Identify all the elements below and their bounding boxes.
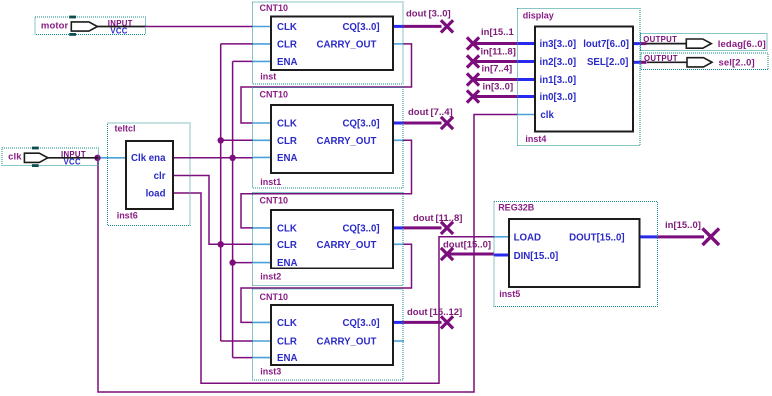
port ENA inst3 [277,353,297,364]
bus label in[7..4] [482,64,513,75]
port DOUT[15..0] [569,233,624,244]
bus stub DIN REG32B [494,254,509,257]
block CNT10 inst3 body [271,305,393,365]
pin stub CARRY_OUT inst2 [393,243,403,245]
svg-text:DOUT[15..0]: DOUT[15..0] [569,233,624,244]
port CARRY_OUT inst [316,40,376,51]
wire clr branch to inst3 [221,340,253,342]
bus sel net to OUTPUT pin [640,61,646,64]
bus stub display in[11..8] [517,60,535,63]
bus dout[7..4] [403,122,442,125]
symbol name display [523,11,554,21]
bus label in[15..0] [665,220,701,231]
svg-text:CLK: CLK [277,318,297,329]
svg-text:CQ[3..0]: CQ[3..0] [342,22,379,33]
pin stub CLK inst1 [252,122,271,124]
dangling X in[15..12] [467,37,479,49]
junction clr net at inst1 branch [218,137,224,143]
svg-text:in3[3..0]: in3[3..0] [540,39,577,50]
svg-text:CARRY_OUT: CARRY_OUT [316,240,376,251]
svg-text:in[7..4]: in[7..4] [482,64,513,75]
port CLR inst2 [277,240,297,251]
wire ena net: teltcl Clk ena to ENA inst1 [173,157,252,159]
svg-text:dout [15..12]: dout [15..12] [407,307,462,318]
symbol name CNT10 (inst3) [260,292,289,302]
pin stub ENA inst2 [252,262,271,264]
port CARRY_OUT inst2 [316,240,376,251]
svg-text:ENA: ENA [277,353,297,364]
svg-text:in[15..1: in[15..1 [481,27,514,38]
svg-text:ENA: ENA [277,153,297,164]
pin stub ENA inst [252,60,271,62]
block display body [535,27,633,132]
svg-text:inst3: inst3 [260,367,281,377]
svg-text:inst2: inst2 [260,271,281,281]
svg-text:inst6: inst6 [117,211,138,221]
junction ena net at inst2 branch [229,259,235,265]
port lout7[6..0] [583,39,629,50]
pin stub ENA inst3 [252,357,271,359]
port CQ[3..0] inst2 [342,224,379,235]
port CLR inst3 [277,337,297,348]
pin stub CLK inst [252,26,271,28]
port ENA inst1 [277,153,297,164]
port ENA inst2 [277,258,297,269]
pin stub CARRY_OUT inst3 (unconnected) [393,340,404,342]
wire clk pin to teltcl Clk ena (net clk) [96,157,126,159]
block CNT10 inst body [271,17,393,71]
svg-text:sel[2..0]: sel[2..0] [719,58,755,69]
block REG32B body [509,219,640,287]
symbol name REG32B [498,203,535,213]
junction clk net at input pin [94,155,100,161]
instance name inst1 [260,177,281,187]
block CNT10 inst3 selection box [252,289,403,380]
bus label dout[15..0] [443,240,491,251]
dangling X in[15..0] [703,228,720,245]
instance name inst6 [117,211,138,221]
bus stub display in[3..0] [517,95,535,98]
bus in[11..8] to display [473,60,517,63]
junction clr net at source [218,241,224,247]
symbol name teltcl [115,124,136,134]
output pin sel[2..0] [641,53,768,70]
port in1[3..0] [540,75,577,86]
pin stub ENA inst1 [252,156,271,158]
bus stub display in[15..12] [517,42,535,45]
svg-text:CLK: CLK [277,119,297,130]
svg-text:inst5: inst5 [499,289,520,299]
symbol name CNT10 (inst1) [260,90,289,100]
bus stub DOUT REG32B [640,235,658,238]
svg-text:CLR: CLR [277,240,297,251]
bus label in[11..8] [481,46,516,57]
dangling X in[3..0] [467,90,479,102]
instance name inst3 [260,367,281,377]
bus stub CQ inst2 [393,226,403,229]
bus label in[3..0] [483,82,514,93]
pin stub display clk [517,114,535,116]
port CLR inst [277,40,297,51]
svg-text:dout [11..8]: dout [11..8] [413,213,462,224]
wire ena net vertical distribution [232,61,234,357]
dangling X dout[15..0] [441,248,453,260]
svg-text:CLR: CLR [277,136,297,147]
svg-text:inst: inst [260,72,276,82]
pin stub LOAD REG32B [494,236,509,238]
svg-text:in0[3..0]: in0[3..0] [540,92,577,103]
bus label dout[3..0] [406,9,451,20]
block CNT10 inst2 selection box [252,193,403,286]
dangling X dout[7..4] [441,117,453,129]
pin stub CARRY_OUT inst [393,43,403,45]
wire ena branch to inst [233,60,253,62]
svg-text:REG32B: REG32B [498,203,535,213]
bus in[15..12] to display [473,42,517,45]
wire load net: teltcl load to REG32B LOAD [173,193,494,383]
svg-text:CQ[3..0]: CQ[3..0] [342,224,379,235]
port CLK inst [277,22,297,33]
bus dout[15..12] [403,321,442,324]
svg-text:in[11..8]: in[11..8] [481,46,516,57]
wire clr net: teltcl clr down to CLR inst2 [173,176,252,245]
wire carry chain inst1 to CLK inst2 [241,140,412,228]
port in2[3..0] [540,57,577,68]
dangling X dout[11..8] [441,222,453,234]
wire ena branch to inst3 [233,357,253,359]
svg-text:CNT10: CNT10 [260,90,289,100]
wire clr net vertical distribution [220,44,222,341]
dangling X dout[3..0] [441,20,453,32]
port CQ[3..0] inst3 [342,318,379,329]
port DIN[15..0] [514,251,559,262]
instance name inst5 [499,289,520,299]
svg-text:CQ[3..0]: CQ[3..0] [342,119,379,130]
port in3[3..0] [540,39,577,50]
pin stub CARRY_OUT inst1 [393,139,403,141]
svg-text:VCC: VCC [110,26,127,35]
wire ena branch to inst2 [233,262,253,264]
svg-text:in1[3..0]: in1[3..0] [540,75,577,86]
bus stub lout7 display to OUTPUT pin [633,42,640,45]
symbol name CNT10 (inst2) [260,196,289,206]
svg-text:CARRY_OUT: CARRY_OUT [316,337,376,348]
bus label dout[7..4] [408,107,453,118]
svg-text:VCC: VCC [64,158,81,167]
block CNT10 inst1 selection box [252,88,403,189]
block CNT10 inst selection box [252,2,403,84]
svg-text:CNT10: CNT10 [260,292,289,302]
bus label dout[11..8] [413,213,462,224]
bus dout[11..8] [403,226,442,229]
bus stub CQ inst3 [393,321,403,324]
bus label in[15..12] [481,27,514,38]
block teltcl selection box [108,123,190,226]
pin stub CLK inst2 [252,227,271,229]
svg-text:in[15..0]: in[15..0] [665,220,701,231]
bus dout[15..0] into REG32B DIN [447,253,494,256]
svg-text:dout[15..0]: dout[15..0] [443,240,491,251]
port CLK inst1 [277,119,297,130]
svg-text:CNT10: CNT10 [260,3,289,13]
wire motor net to CLK of inst [145,26,252,28]
bus in[3..0] to display [473,95,517,98]
wire carry chain inst to CLK inst1 [241,44,412,123]
bus stub CQ inst1 [393,122,403,125]
svg-text:inst1: inst1 [260,177,281,187]
svg-text:Clk ena: Clk ena [131,153,166,164]
svg-text:inst4: inst4 [525,134,546,144]
input pin clk [2,147,99,167]
output pin ledag[6..0] [640,33,767,50]
bus in[7..4] to display [473,78,517,81]
pin stub CLR inst2 [252,243,271,245]
port LOAD [514,233,541,244]
svg-text:CLR: CLR [277,40,297,51]
block CNT10 inst2 body [271,210,393,268]
svg-text:OUTPUT: OUTPUT [644,54,678,63]
svg-text:clr: clr [154,171,166,182]
block REG32B selection box [494,202,658,307]
svg-text:dout [3..0]: dout [3..0] [406,9,451,20]
svg-text:CLK: CLK [277,224,297,235]
svg-text:OUTPUT: OUTPUT [643,35,677,44]
svg-text:CARRY_OUT: CARRY_OUT [316,40,376,51]
port ENA inst [277,57,297,68]
port Clk ena [131,153,166,164]
bus label dout[15..12] [407,307,462,318]
symbol name CNT10 (inst) [260,3,289,13]
port clr [154,171,166,182]
port CLR inst1 [277,136,297,147]
port CQ[3..0] inst1 [342,119,379,130]
dangling X in[11..8] [467,55,479,67]
svg-text:dout [7..4]: dout [7..4] [408,107,453,118]
svg-text:clk: clk [540,110,554,121]
port CARRY_OUT inst3 [316,337,376,348]
bus dout[3..0] [403,25,442,28]
bus in[15..0] [657,235,704,238]
port CLK inst3 [277,318,297,329]
svg-text:CNT10: CNT10 [260,196,289,206]
svg-text:SEL[2..0]: SEL[2..0] [587,57,628,68]
svg-text:load: load [146,189,166,200]
wire clr branch to inst [221,43,253,45]
svg-text:teltcl: teltcl [115,124,136,134]
dangling X in[7..4] [467,73,479,85]
svg-text:CARRY_OUT: CARRY_OUT [316,136,376,147]
svg-text:lout7[6..0]: lout7[6..0] [583,39,629,50]
block display selection box [517,9,640,146]
junction ena net at source [229,155,235,161]
svg-text:CLK: CLK [277,22,297,33]
pin stub CLK inst3 [252,321,271,323]
svg-text:in2[3..0]: in2[3..0] [540,57,577,68]
wire clk net: down, along bottom, up to display clk [98,115,517,393]
port load [146,189,166,200]
svg-text:ENA: ENA [277,258,297,269]
svg-text:CLR: CLR [277,337,297,348]
instance name inst [260,72,276,82]
svg-text:CQ[3..0]: CQ[3..0] [342,318,379,329]
bus stub display in[7..4] [517,78,535,81]
svg-text:ledag[6..0]: ledag[6..0] [718,39,766,50]
pin stub CLR inst1 [252,139,271,141]
svg-text:clk: clk [8,152,22,163]
port CQ[3..0] inst [342,22,379,33]
pin stub CLR inst3 [252,340,271,342]
svg-text:LOAD: LOAD [514,233,541,244]
port CARRY_OUT inst1 [316,136,376,147]
pin stub CLR inst [252,43,271,45]
port SEL[2..0] [587,57,628,68]
instance name inst2 [260,271,281,281]
port in0[3..0] [540,92,577,103]
instance name inst4 [525,134,546,144]
dangling X dout[15..12] [441,316,453,328]
block teltcl body [126,141,173,209]
svg-text:in[3..0]: in[3..0] [483,82,514,93]
port CLK inst2 [277,224,297,235]
bus stub CQ inst [393,25,403,28]
input pin motor [35,16,145,36]
wire clr branch to inst1 [221,139,253,141]
bus stub SEL display to OUTPUT pin [633,61,640,64]
block CNT10 inst1 body [271,105,393,173]
svg-text:motor: motor [41,20,69,31]
wire carry chain inst2 to CLK inst3 [241,244,412,322]
bus lout7 net to OUTPUT pin [640,42,646,45]
svg-text:ENA: ENA [277,57,297,68]
svg-text:DIN[15..0]: DIN[15..0] [514,251,559,262]
svg-text:display: display [523,11,554,21]
port clk (display) [540,110,554,121]
